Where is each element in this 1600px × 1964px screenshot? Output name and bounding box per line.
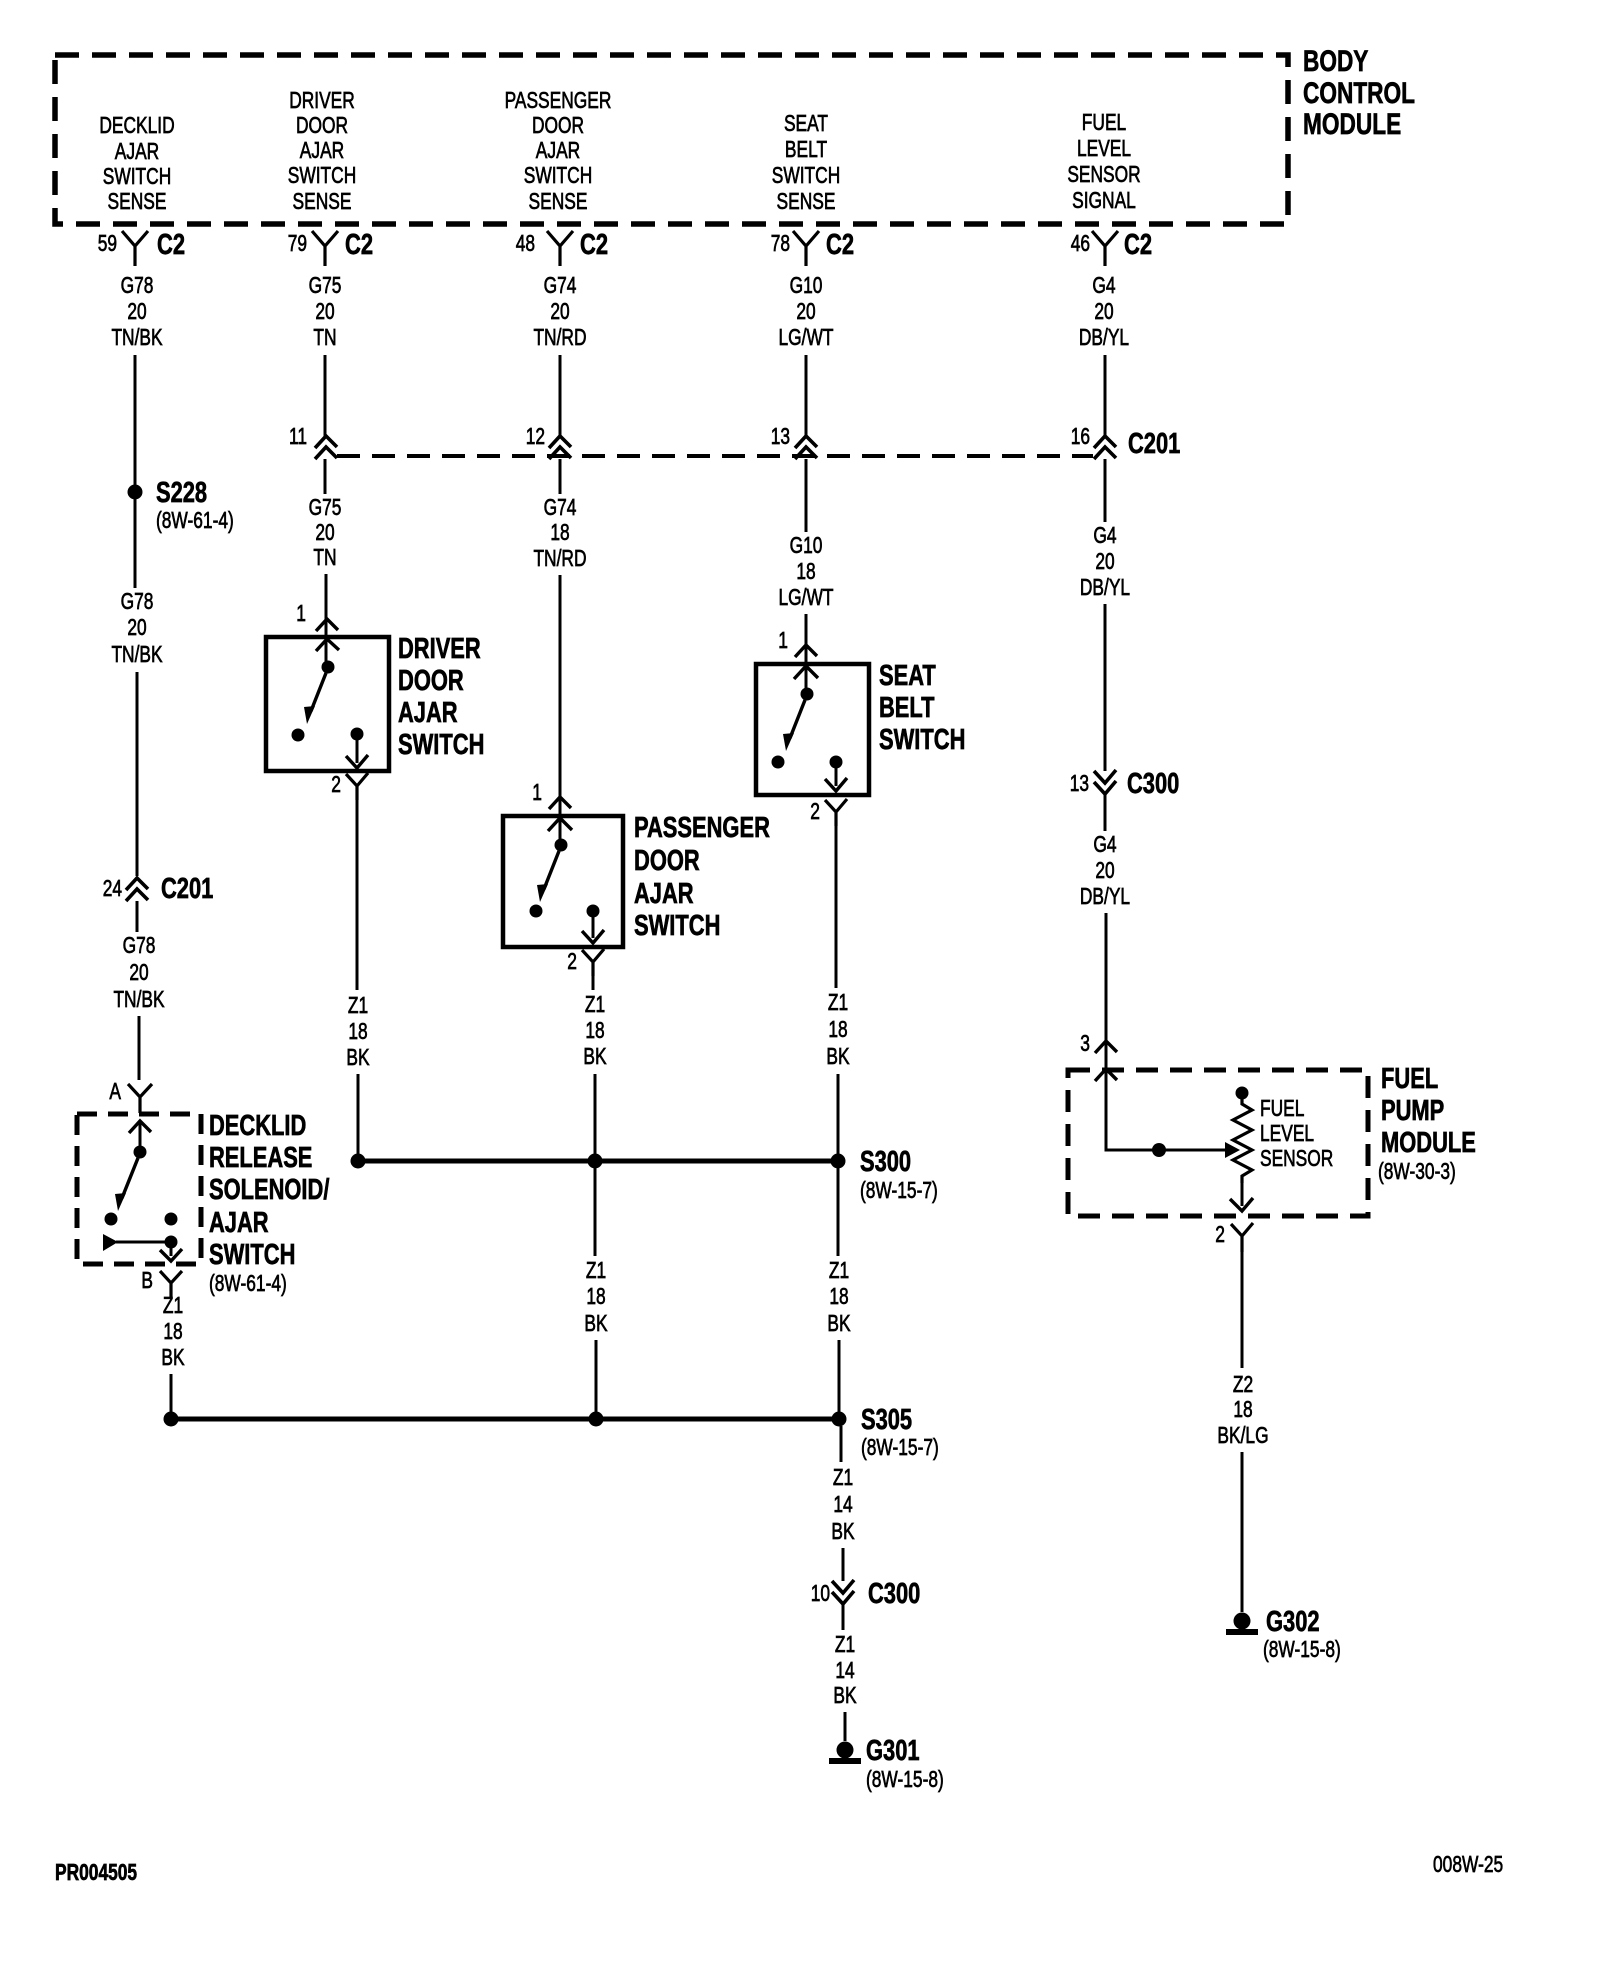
decklid switch left contact [105, 1213, 118, 1226]
wire label Z1 18 BK decklid [161, 1292, 185, 1370]
svg-text:SWITCH: SWITCH [634, 910, 720, 942]
svg-text:20: 20 [1095, 548, 1114, 574]
svg-text:PASSENGER: PASSENGER [505, 87, 612, 113]
splice S228 [128, 477, 234, 533]
connector C2 pin 79 [288, 229, 373, 266]
svg-text:18: 18 [828, 1016, 847, 1042]
svg-text:G74: G74 [544, 494, 577, 520]
svg-text:A: A [109, 1078, 121, 1104]
svg-text:G4: G4 [1093, 522, 1116, 548]
wire C300 to label [842, 1604, 845, 1630]
passenger door switch left contact [530, 905, 543, 918]
svg-text:(8W-61-4): (8W-61-4) [156, 507, 234, 533]
svg-text:G4: G4 [1092, 272, 1115, 298]
seat belt switch blade [783, 700, 805, 751]
wire label G4 20 DB/YL top [1079, 272, 1129, 350]
wire col3 C2 to C201 [559, 355, 562, 436]
fuel pump wiper arrow [1225, 1142, 1240, 1158]
decklid switch blade [115, 1158, 138, 1211]
svg-text:BK/LG: BK/LG [1217, 1422, 1268, 1448]
wire label G74 20 TN/RD top [533, 272, 586, 350]
svg-text:SENSE: SENSE [529, 188, 588, 214]
svg-text:SWITCH: SWITCH [103, 163, 172, 189]
svg-text:2: 2 [1215, 1221, 1225, 1247]
wire col5 label to fuel pump [1105, 913, 1108, 1070]
decklid ajar contact junction [165, 1236, 178, 1249]
wire col3 C201 to label [559, 459, 562, 494]
svg-text:SEAT: SEAT [784, 110, 828, 136]
wire label G4 20 DB/YL low [1080, 831, 1130, 909]
wire col5 C201 to label [1104, 459, 1107, 522]
driver door switch output contact [351, 728, 364, 741]
svg-text:SWITCH: SWITCH [879, 724, 965, 756]
driver door ajar switch label [398, 633, 484, 761]
wire col5 C2 to C201 [1104, 355, 1107, 436]
connector C201 pin 13 [771, 423, 817, 459]
wire col5 C300 to label [1104, 794, 1107, 831]
svg-text:Z1: Z1 [835, 1631, 855, 1657]
svg-text:2: 2 [567, 948, 577, 974]
wire label G78 20 TN/BK mid [111, 588, 163, 667]
svg-text:G301: G301 [866, 1735, 920, 1767]
svg-text:DRIVER: DRIVER [289, 87, 355, 113]
wire label Z1 18 BK driver [346, 992, 370, 1070]
passenger door switch pin 2 connector [567, 948, 604, 976]
wire label Z1 18 BK passenger [583, 991, 607, 1069]
wire to C300 pin 10 [842, 1548, 845, 1581]
splice line S305 [171, 1417, 839, 1422]
wire col1 C2 to S228 [134, 355, 137, 486]
wire col4 C2 to C201 [805, 355, 808, 436]
connector C201 pin 11 [289, 423, 337, 459]
passenger door switch blade [537, 851, 559, 902]
driver door switch blade [304, 673, 326, 724]
wire label Z1 14 BK upper [831, 1464, 855, 1544]
svg-text:SWITCH: SWITCH [772, 162, 841, 188]
svg-text:SENSOR: SENSOR [1067, 161, 1140, 187]
svg-text:G302: G302 [1266, 1606, 1320, 1638]
svg-text:AJAR: AJAR [115, 138, 159, 164]
connector C300 pin 10 [811, 1578, 921, 1610]
svg-text:G10: G10 [790, 272, 823, 298]
svg-text:G75: G75 [309, 272, 342, 298]
connector C2 pin 48 [516, 229, 608, 266]
svg-text:2: 2 [331, 771, 341, 797]
svg-text:TN/BK: TN/BK [111, 324, 163, 350]
svg-text:20: 20 [796, 298, 815, 324]
wire label G10 18 LG/WT mid [779, 532, 834, 610]
svg-text:AJAR: AJAR [536, 137, 580, 163]
decklid switch common contact [134, 1146, 147, 1159]
body control module U1 dashed box [55, 55, 1288, 224]
svg-text:1: 1 [532, 779, 542, 805]
svg-text:S305: S305 [861, 1404, 912, 1436]
wire label G4 20 DB/YL mid [1080, 522, 1130, 600]
svg-text:TN/RD: TN/RD [533, 545, 586, 571]
svg-text:59: 59 [98, 230, 117, 256]
decklid switch pin B exit arrow [160, 1242, 182, 1261]
driver door switch left contact [292, 729, 305, 742]
svg-text:PUMP: PUMP [1381, 1095, 1444, 1127]
ground G301 [829, 1735, 944, 1792]
svg-text:Z1: Z1 [585, 991, 605, 1017]
svg-text:SOLENOID/: SOLENOID/ [209, 1174, 329, 1206]
wire col3 label to switch [559, 575, 562, 843]
decklid release solenoid label [209, 1110, 329, 1296]
svg-text:TN/BK: TN/BK [113, 986, 165, 1012]
svg-text:DOOR: DOOR [634, 845, 700, 877]
wire to G301 [844, 1712, 847, 1741]
fuel pump entry chevron [1095, 1069, 1117, 1081]
wire S305 down stub [840, 1426, 843, 1462]
wire label G75 20 TN top [309, 272, 342, 350]
svg-text:LG/WT: LG/WT [779, 584, 834, 610]
svg-text:TN: TN [313, 324, 336, 350]
svg-text:BODY: BODY [1303, 45, 1368, 78]
wire seat belt to S300 [837, 1074, 840, 1161]
svg-text:SIGNAL: SIGNAL [1072, 187, 1136, 213]
svg-text:G78: G78 [121, 588, 154, 614]
svg-text:(8W-15-7): (8W-15-7) [860, 1177, 938, 1203]
svg-text:13: 13 [1070, 770, 1089, 796]
wire seat belt to S305 [838, 1340, 841, 1419]
svg-text:LEVEL: LEVEL [1260, 1120, 1314, 1146]
svg-text:24: 24 [103, 875, 122, 901]
svg-text:BK: BK [833, 1682, 857, 1708]
svg-text:G75: G75 [309, 494, 342, 520]
svg-text:AJAR: AJAR [634, 878, 694, 910]
svg-text:2: 2 [810, 798, 820, 824]
svg-text:Z1: Z1 [348, 992, 368, 1018]
svg-text:BK: BK [346, 1044, 370, 1070]
connector C2 pin 46 [1071, 229, 1152, 266]
svg-text:TN/BK: TN/BK [111, 641, 163, 667]
svg-text:BK: BK [826, 1043, 850, 1069]
svg-text:(8W-30-3): (8W-30-3) [1378, 1158, 1456, 1184]
pin caption: driver door ajar switch sense [288, 87, 357, 214]
svg-text:Z2: Z2 [1233, 1371, 1253, 1397]
svg-text:18: 18 [829, 1283, 848, 1309]
wire driver pin2 down [356, 800, 359, 990]
wire seat belt pin2 down [835, 826, 838, 988]
svg-text:14: 14 [833, 1491, 852, 1517]
splice S305 [832, 1404, 939, 1460]
seat belt switch output contact [830, 756, 843, 769]
body control module label [1303, 45, 1415, 141]
svg-text:SWITCH: SWITCH [398, 729, 484, 761]
svg-text:SWITCH: SWITCH [524, 162, 593, 188]
svg-text:12: 12 [526, 423, 545, 449]
svg-text:14: 14 [835, 1657, 854, 1683]
svg-text:20: 20 [315, 519, 334, 545]
connector pin B [141, 1267, 182, 1297]
wire col1 C201 to label [136, 901, 139, 932]
svg-text:G10: G10 [790, 532, 823, 558]
svg-text:1: 1 [778, 627, 788, 653]
pin caption: passenger door ajar switch sense [505, 87, 612, 214]
svg-text:MODULE: MODULE [1381, 1127, 1476, 1159]
svg-text:G78: G78 [123, 932, 156, 958]
decklid ajar contact upper [165, 1213, 178, 1226]
fuel pump pin 2 connector [1215, 1221, 1253, 1252]
fuel pump internal junction [1152, 1143, 1166, 1157]
svg-text:SENSE: SENSE [108, 188, 167, 214]
svg-text:11: 11 [289, 423, 307, 449]
svg-text:DB/YL: DB/YL [1080, 574, 1130, 600]
svg-text:SEAT: SEAT [879, 660, 936, 692]
svg-text:C201: C201 [161, 873, 213, 905]
driver door switch pin 2 connector [331, 771, 368, 800]
seat belt switch box [756, 664, 869, 795]
svg-text:008W-25: 008W-25 [1433, 1851, 1503, 1877]
connector pin A [109, 1078, 152, 1113]
svg-text:G4: G4 [1093, 831, 1116, 857]
connector C201 pin 12 [526, 423, 571, 459]
S305 junction passenger [589, 1412, 604, 1427]
svg-text:(8W-15-8): (8W-15-8) [866, 1766, 944, 1792]
svg-text:B: B [141, 1267, 153, 1293]
wire label Z1 18 BK seat belt low [827, 1257, 851, 1336]
svg-text:G74: G74 [544, 272, 577, 298]
svg-text:TN: TN [313, 544, 336, 570]
connector C201 pin 16 [1071, 423, 1181, 460]
seat belt switch common contact [801, 688, 814, 701]
svg-text:(8W-15-8): (8W-15-8) [1263, 1636, 1341, 1662]
svg-text:DOOR: DOOR [398, 665, 464, 697]
svg-text:20: 20 [1095, 857, 1114, 883]
sheet number PR004505 [55, 1859, 137, 1885]
S305 junction decklid [164, 1412, 179, 1427]
wire label Z1 14 BK lower [833, 1631, 857, 1708]
wire col5 label to C300 [1104, 604, 1107, 771]
svg-text:CONTROL: CONTROL [1303, 77, 1415, 110]
wire col4 C201 to label [805, 459, 808, 532]
svg-text:FUEL: FUEL [1082, 109, 1127, 135]
splice S300 [831, 1146, 938, 1203]
wire label G78 20 TN/BK low [113, 932, 165, 1012]
svg-text:20: 20 [129, 959, 148, 985]
passenger door switch common contact [555, 839, 568, 852]
seat belt switch left contact [772, 756, 785, 769]
connector C2 pin 78 [771, 229, 854, 266]
seat belt switch pin 2 exit arrow [825, 762, 847, 791]
wire passenger to S300 [594, 1074, 597, 1161]
wire fuel pin2 down [1241, 1252, 1244, 1368]
svg-text:BELT: BELT [879, 692, 935, 724]
wire label G75 20 TN mid [309, 494, 342, 570]
fuel level sensor exit arrow [1230, 1183, 1253, 1211]
fuel pump internal wire [1106, 1069, 1225, 1150]
svg-text:20: 20 [550, 298, 569, 324]
svg-text:BK: BK [827, 1310, 851, 1336]
svg-text:16: 16 [1071, 423, 1090, 449]
svg-text:TN/RD: TN/RD [533, 324, 586, 350]
svg-text:SENSOR: SENSOR [1260, 1145, 1333, 1171]
decklid solenoid arrow [103, 1234, 171, 1251]
sheet number 008W-25 [1433, 1851, 1503, 1877]
svg-text:79: 79 [288, 230, 307, 256]
splice line S300 [358, 1159, 838, 1164]
svg-text:10: 10 [811, 1580, 830, 1606]
wire col1 to C201 [136, 672, 139, 876]
svg-text:Z1: Z1 [833, 1464, 853, 1490]
svg-text:DRIVER: DRIVER [398, 633, 481, 665]
wire decklid B to S305 [170, 1374, 173, 1413]
svg-text:FUEL: FUEL [1260, 1095, 1305, 1121]
svg-text:SENSE: SENSE [293, 188, 352, 214]
wire col2 label to switch [325, 574, 328, 664]
svg-text:1: 1 [296, 600, 306, 626]
svg-text:20: 20 [315, 298, 334, 324]
fuel pump module label [1378, 1063, 1476, 1184]
connector pin 3 chevron [1080, 1030, 1117, 1056]
svg-text:SWITCH: SWITCH [288, 162, 357, 188]
wire label G74 18 TN/RD mid [533, 494, 586, 571]
svg-text:PR004505: PR004505 [55, 1859, 137, 1885]
svg-text:BELT: BELT [785, 136, 827, 162]
wire col1 S228 down [134, 499, 137, 588]
svg-text:AJAR: AJAR [209, 1207, 269, 1239]
pin caption: decklid ajar switch sense [99, 112, 174, 214]
wire passenger pin2 down [592, 976, 595, 990]
svg-text:C2: C2 [1124, 229, 1152, 261]
svg-text:DB/YL: DB/YL [1080, 883, 1130, 909]
svg-text:48: 48 [516, 230, 535, 256]
wire label G78 20 TN/BK top [111, 272, 163, 350]
connector C2 pin 59 [98, 229, 185, 266]
wire fuel to G302 [1241, 1452, 1244, 1612]
seat belt switch pin 1 chevrons [778, 627, 818, 679]
svg-text:DECKLID: DECKLID [99, 112, 174, 138]
C201 connector dashed line [337, 454, 1093, 458]
wire label G10 20 LG/WT top [779, 272, 834, 350]
driver door switch pin 2 exit arrow [346, 734, 368, 768]
fuel level sensor top contact [1236, 1087, 1249, 1100]
svg-text:18: 18 [585, 1017, 604, 1043]
wire label Z1 18 BK passenger low [584, 1257, 608, 1336]
svg-text:AJAR: AJAR [300, 137, 344, 163]
passenger door switch output contact [587, 905, 600, 918]
driver door switch common contact [322, 661, 335, 674]
seat belt switch pin 2 connector [810, 798, 847, 826]
svg-text:G78: G78 [121, 272, 154, 298]
pin caption: fuel level sensor signal [1067, 109, 1140, 213]
svg-text:MODULE: MODULE [1303, 108, 1401, 141]
passenger door switch pin 2 exit arrow [582, 911, 604, 943]
svg-text:Z1: Z1 [586, 1257, 606, 1283]
svg-text:18: 18 [796, 558, 815, 584]
svg-text:(8W-15-7): (8W-15-7) [861, 1434, 939, 1460]
pin caption: seat belt switch sense [772, 110, 841, 214]
wire col2 C2 to C201 [324, 355, 327, 436]
svg-text:18: 18 [163, 1318, 182, 1344]
svg-text:46: 46 [1071, 230, 1090, 256]
driver door ajar switch box [266, 637, 389, 771]
svg-text:DOOR: DOOR [532, 112, 584, 138]
svg-text:BK: BK [831, 1518, 855, 1544]
svg-text:SWITCH: SWITCH [209, 1239, 295, 1271]
S300 junction driver [351, 1154, 366, 1169]
fuel level sensor resistor [1233, 1099, 1252, 1183]
wire passenger S300 to label [594, 1167, 597, 1256]
svg-text:C2: C2 [157, 229, 185, 261]
svg-text:18: 18 [348, 1018, 367, 1044]
svg-text:20: 20 [127, 614, 146, 640]
svg-text:DOOR: DOOR [296, 112, 348, 138]
passenger door ajar switch box [503, 816, 623, 947]
passenger door ajar switch label [634, 812, 770, 942]
svg-text:20: 20 [1094, 298, 1113, 324]
connector C201 pin 24 [103, 873, 214, 905]
seat belt switch label [879, 660, 965, 756]
decklid release solenoid/ajar switch dashed box [77, 1114, 201, 1264]
wire col2 C201 to label [324, 459, 327, 494]
wire label Z1 18 BK seat belt [826, 989, 850, 1069]
svg-text:(8W-61-4): (8W-61-4) [209, 1270, 287, 1296]
wire col4 label to switch [805, 614, 808, 690]
passenger door switch pin 1 chevrons [532, 779, 572, 831]
wire passenger to S305 [595, 1340, 598, 1419]
connector C300 pin 13 [1070, 768, 1180, 800]
svg-text:18: 18 [1233, 1396, 1252, 1422]
svg-text:DB/YL: DB/YL [1079, 324, 1129, 350]
svg-text:20: 20 [127, 298, 146, 324]
svg-text:C201: C201 [1128, 428, 1180, 460]
svg-text:S228: S228 [156, 477, 207, 509]
svg-text:FUEL: FUEL [1381, 1063, 1438, 1095]
svg-text:PASSENGER: PASSENGER [634, 812, 770, 844]
svg-text:BK: BK [584, 1310, 608, 1336]
svg-text:S300: S300 [860, 1146, 911, 1178]
svg-text:C300: C300 [868, 1578, 920, 1610]
svg-text:LEVEL: LEVEL [1077, 135, 1131, 161]
svg-text:Z1: Z1 [829, 1257, 849, 1283]
svg-text:AJAR: AJAR [398, 697, 458, 729]
svg-text:C2: C2 [345, 229, 373, 261]
svg-text:C2: C2 [826, 229, 854, 261]
fuel pump module dashed box [1068, 1070, 1368, 1216]
svg-text:DECKLID: DECKLID [209, 1110, 306, 1142]
wire seat belt S300 to label [837, 1167, 840, 1256]
svg-text:LG/WT: LG/WT [779, 324, 834, 350]
S300 junction passenger [588, 1154, 603, 1169]
ground G302 [1226, 1606, 1341, 1662]
svg-text:78: 78 [771, 230, 790, 256]
driver door switch pin 1 chevrons [296, 600, 339, 651]
wire col1 to pin A [138, 1016, 141, 1080]
decklid switch pin A entry chevron [129, 1121, 151, 1146]
fuel level sensor label [1260, 1095, 1333, 1171]
svg-text:BK: BK [583, 1043, 607, 1069]
svg-text:18: 18 [586, 1283, 605, 1309]
svg-text:SENSE: SENSE [777, 188, 836, 214]
svg-text:Z1: Z1 [163, 1292, 183, 1318]
svg-text:18: 18 [550, 519, 569, 545]
svg-text:BK: BK [161, 1344, 185, 1370]
svg-text:C2: C2 [580, 229, 608, 261]
svg-text:3: 3 [1080, 1030, 1090, 1056]
svg-text:13: 13 [771, 423, 790, 449]
svg-text:C300: C300 [1127, 768, 1179, 800]
svg-text:RELEASE: RELEASE [209, 1142, 312, 1174]
wire driver to S300 [357, 1074, 360, 1161]
wire label Z2 18 BK/LG [1217, 1371, 1268, 1448]
svg-text:Z1: Z1 [828, 989, 848, 1015]
